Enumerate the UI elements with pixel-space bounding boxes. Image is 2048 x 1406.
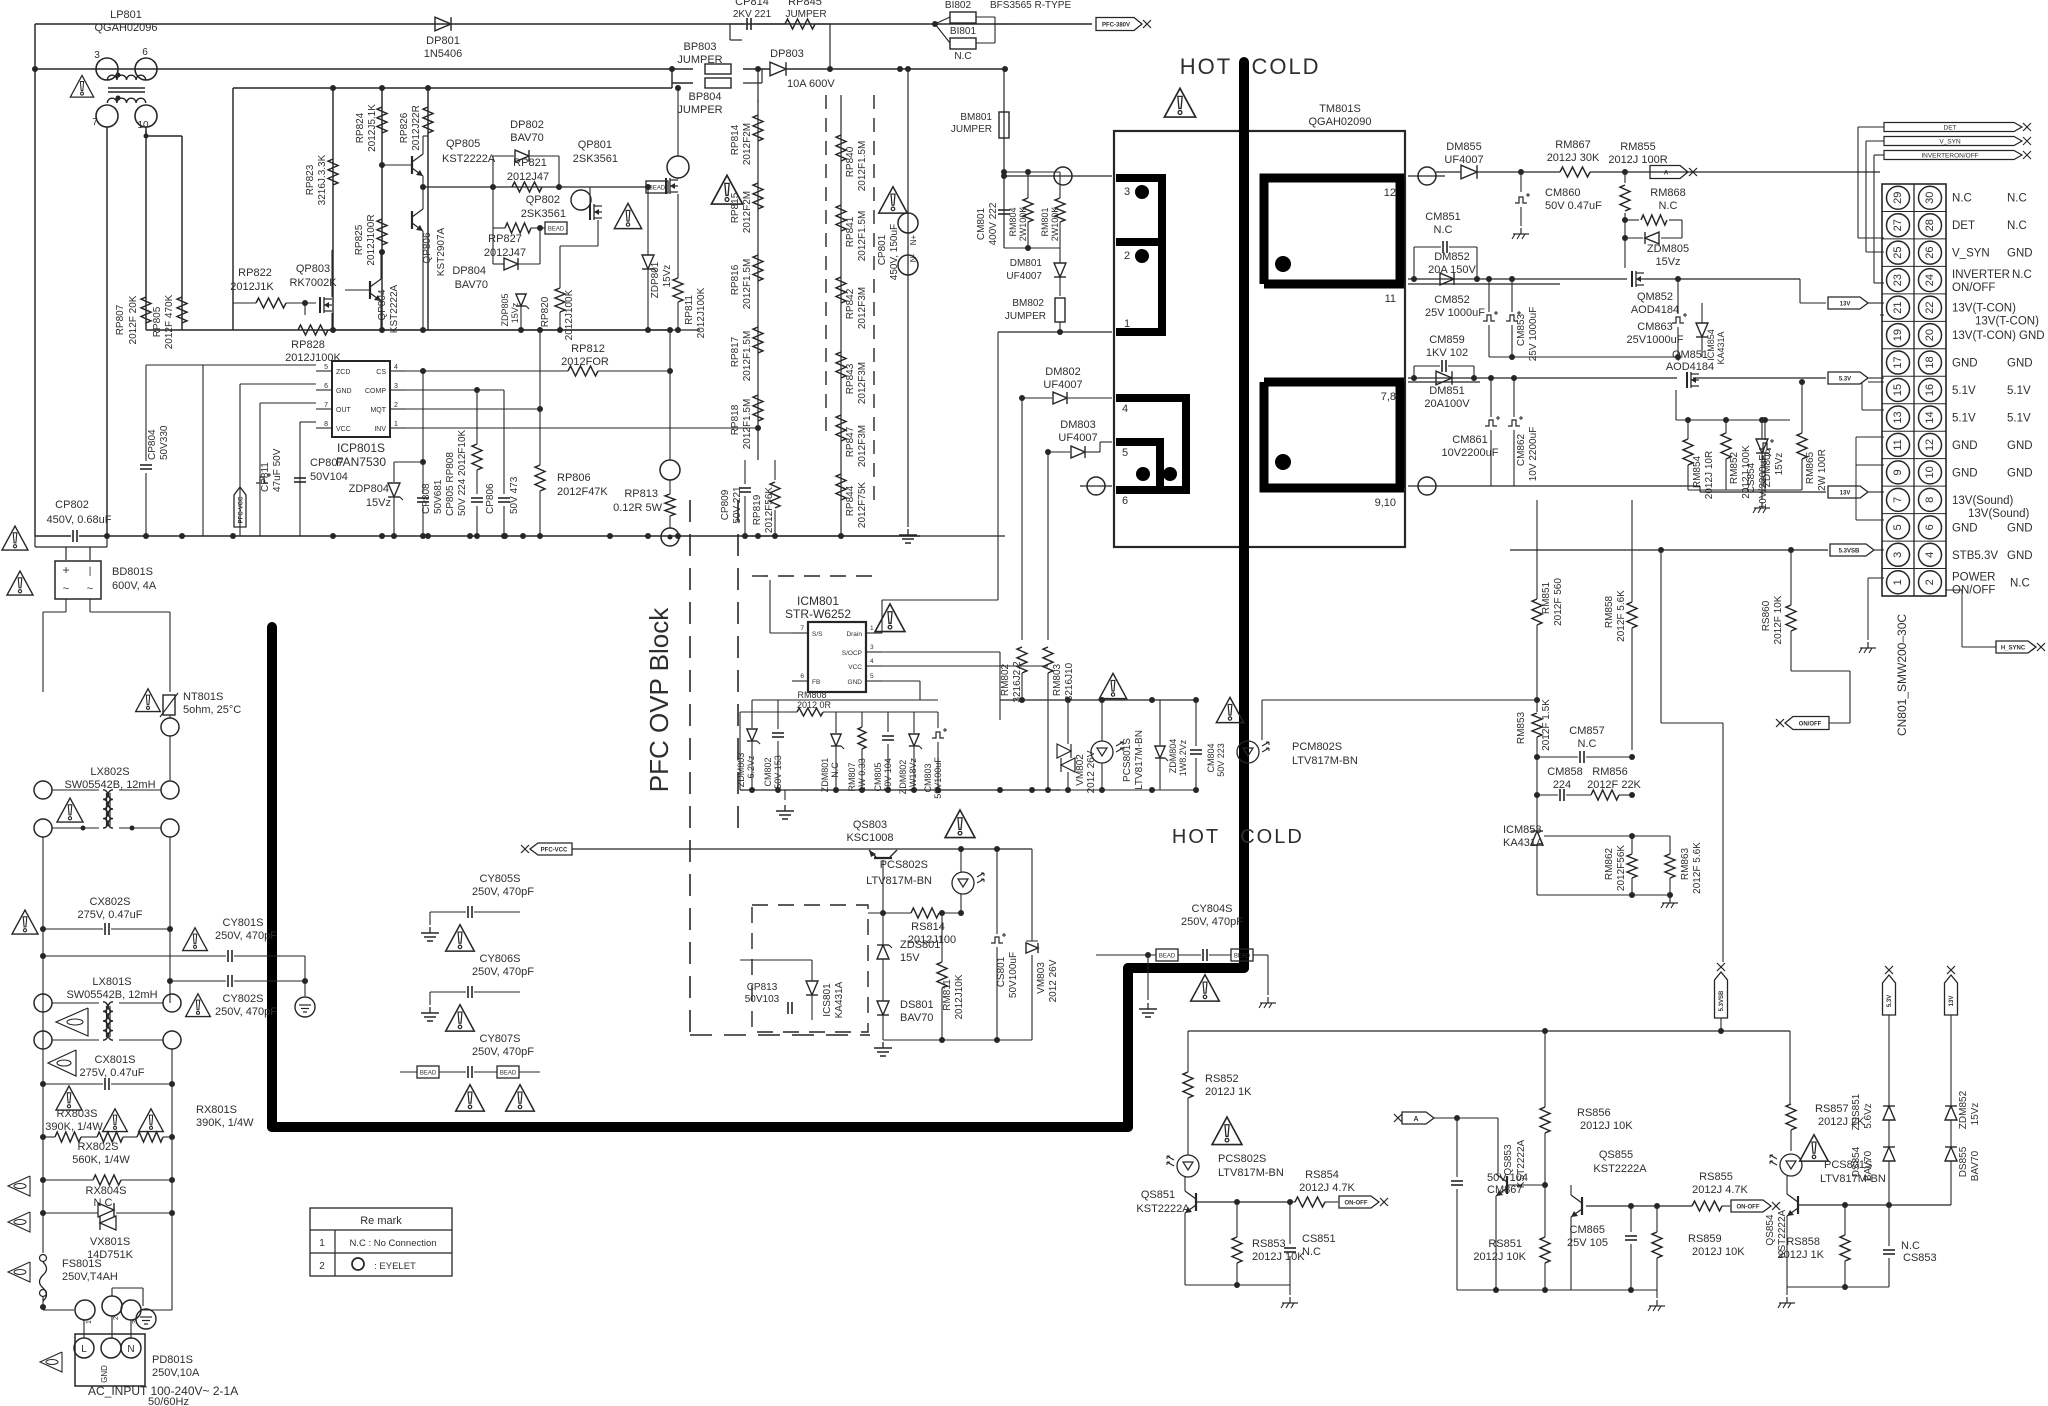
resistor RP820 vertical — [555, 288, 565, 312]
svg-text:ZDP805: ZDP805 — [500, 293, 510, 326]
svg-text:QP802: QP802 — [526, 194, 560, 206]
wire QS854 bottom rail — [1787, 1286, 1889, 1288]
warning triangle QP802 area — [614, 203, 641, 228]
svg-text:VX801S: VX801S — [90, 1236, 130, 1248]
wire pin3 eyelet — [1004, 175, 1112, 177]
svg-text:RS853: RS853 — [1252, 1238, 1286, 1250]
svg-text:ZDM802: ZDM802 — [898, 760, 908, 795]
svg-text:ZDP804: ZDP804 — [349, 483, 389, 495]
connector pin 29 — [1887, 186, 1910, 209]
warning triangle below HOT — [1164, 88, 1195, 117]
svg-text:KST2222A: KST2222A — [1136, 1203, 1190, 1215]
zener ZDM801 N.C — [831, 734, 841, 746]
svg-text:DET: DET — [1952, 220, 1975, 232]
svg-text:8: 8 — [324, 421, 328, 428]
wires PD801S — [83, 1320, 85, 1338]
svg-text:+: + — [62, 563, 69, 577]
zener ZDM804 1W8.2Vz — [1155, 746, 1165, 758]
svg-text:CM852: CM852 — [1434, 294, 1469, 306]
net arrow 5.3V up — [1883, 975, 1896, 1015]
resistor RP811 inline — [673, 278, 683, 302]
svg-text:ZDS851: ZDS851 — [1851, 1093, 1862, 1130]
svg-text:2012F1.5M: 2012F1.5M — [857, 141, 868, 192]
svg-text:KA431A: KA431A — [1716, 331, 1726, 364]
resistor ladder RP840-RP844 — [840, 95, 842, 536]
thick bottom horizontal bar — [272, 1122, 1128, 1132]
svg-text:BI801: BI801 — [950, 26, 977, 37]
svg-text:2012J5.1K: 2012J5.1K — [367, 104, 378, 152]
svg-text:DP803: DP803 — [770, 48, 804, 60]
connector pin 28 — [1919, 214, 1942, 237]
svg-text:RS856: RS856 — [1577, 1107, 1611, 1119]
svg-text:CM853: CM853 — [1516, 313, 1527, 346]
net arrow H_SYNC — [1996, 641, 2036, 653]
svg-text:4: 4 — [394, 364, 398, 371]
svg-text:GND: GND — [848, 679, 863, 686]
svg-text:RP843: RP843 — [845, 363, 856, 394]
resistor RP807 vertical — [141, 297, 151, 323]
connector pin 4 — [1919, 543, 1942, 566]
svg-text:CP806: CP806 — [485, 483, 496, 514]
connector pin 12 — [1919, 433, 1942, 456]
svg-text:CY802S: CY802S — [223, 993, 264, 1005]
svg-text:0.12R 5W: 0.12R 5W — [613, 502, 663, 514]
svg-text:GND: GND — [100, 1365, 109, 1383]
svg-text:QP806: QP806 — [422, 232, 433, 264]
svg-text:CY806S: CY806S — [480, 953, 521, 965]
svg-text:RP816: RP816 — [730, 264, 741, 295]
svg-text:SW05542B, 12mH: SW05542B, 12mH — [66, 989, 157, 1001]
svg-text:VCC: VCC — [848, 664, 862, 671]
svg-text:QGAH02096: QGAH02096 — [95, 22, 158, 34]
svg-text:15Vz: 15Vz — [510, 302, 520, 323]
jumper BM802 — [1055, 298, 1065, 322]
zener ZDM805 15Vz — [1645, 232, 1659, 244]
ground stub below connector — [1867, 620, 1869, 640]
svg-text:CS851: CS851 — [1302, 1233, 1336, 1245]
resistor RS854 2012J 4.7K — [1295, 1197, 1325, 1207]
svg-text:2012J 100R: 2012J 100R — [1608, 154, 1667, 166]
resistor RP816 vertical — [753, 255, 763, 281]
svg-text:RM854: RM854 — [1692, 455, 1703, 488]
svg-text:5: 5 — [324, 364, 328, 371]
electrolytic CM863 25V1000uF — [1672, 317, 1684, 323]
svg-text:2012F1.5M: 2012F1.5M — [742, 399, 753, 450]
svg-text:2012F 5.6K: 2012F 5.6K — [1692, 842, 1703, 894]
svg-text:BAV70: BAV70 — [1970, 1150, 1981, 1181]
connector pin 30 — [1919, 186, 1942, 209]
thick left vertical bar — [267, 627, 277, 1127]
svg-text:LX801S: LX801S — [92, 976, 131, 988]
svg-text:CP805 RP808: CP805 RP808 — [445, 452, 456, 516]
svg-text:QS851: QS851 — [1141, 1189, 1175, 1201]
svg-text:RM858: RM858 — [1604, 595, 1615, 628]
resistor RP843 vertical — [836, 352, 846, 378]
svg-text:N.C: N.C — [1952, 193, 1972, 205]
svg-text:13: 13 — [1892, 411, 1904, 423]
svg-text:KST2222A: KST2222A — [442, 153, 496, 165]
wire COMP row y390 — [406, 389, 504, 391]
svg-text:2012F1.5M: 2012F1.5M — [742, 259, 753, 310]
connector pin 1 — [1887, 571, 1910, 594]
svg-text:CM801: CM801 — [976, 207, 987, 240]
svg-text:10V2200uF: 10V2200uF — [1442, 447, 1499, 459]
svg-text:50V 223: 50V 223 — [1216, 743, 1226, 777]
resistor RS856 2012J 10K — [1540, 1107, 1550, 1133]
svg-text:50V103: 50V103 — [745, 994, 780, 1005]
warning QS803 wire — [945, 810, 975, 838]
resistor RP819 2012F56K — [770, 482, 780, 508]
svg-text:BM801: BM801 — [960, 112, 992, 123]
svg-text:2KV 221: 2KV 221 — [733, 9, 772, 20]
diode DS801 BAV70 — [877, 1001, 889, 1015]
svg-text:7,8: 7,8 — [1381, 391, 1396, 403]
svg-text:30: 30 — [1924, 192, 1936, 204]
svg-text:RS859: RS859 — [1688, 1233, 1722, 1245]
svg-text:2012F3M: 2012F3M — [857, 287, 868, 329]
svg-text:N.C: N.C — [1302, 1246, 1321, 1258]
capacitor CS851 NC — [1284, 1247, 1296, 1249]
svg-text:2012 0R: 2012 0R — [797, 700, 832, 710]
svg-text:GND: GND — [2007, 550, 2033, 562]
main horizontal bus — [79, 535, 920, 537]
svg-text:QP804: QP804 — [377, 289, 388, 321]
svg-text:JUMPER: JUMPER — [677, 104, 722, 116]
dashed vertical boundary A — [689, 500, 691, 1035]
svg-text:UF4007: UF4007 — [1043, 379, 1082, 391]
resistor RS857 2012J 2K — [1786, 1104, 1796, 1130]
svg-text:250V, 470pF: 250V, 470pF — [472, 1046, 534, 1058]
svg-text:COLD: COLD — [1240, 826, 1304, 848]
wire PFC-VCC bus — [572, 848, 1032, 850]
svg-text:2W100K: 2W100K — [1018, 207, 1028, 242]
svg-text:2012J22R: 2012J22R — [411, 105, 422, 151]
bead QP802 — [545, 222, 567, 234]
svg-text:ZDM803: ZDM803 — [736, 753, 746, 788]
svg-text:2W 100R: 2W 100R — [1817, 449, 1828, 491]
svg-text:2SK3561: 2SK3561 — [521, 208, 566, 220]
svg-text:MQT: MQT — [370, 407, 386, 414]
warning left 3 — [8, 1262, 30, 1282]
svg-text:1: 1 — [1124, 318, 1130, 330]
svg-text:LX802S: LX802S — [90, 766, 129, 778]
wire y187 row — [423, 186, 648, 188]
thick vertical to bottom bar — [1123, 968, 1133, 1127]
connector pin 16 — [1919, 379, 1942, 402]
svg-text:2012J10K: 2012J10K — [954, 974, 965, 1019]
electrolytic CP811 47uF 50V — [256, 477, 268, 483]
svg-text:STR-W6252: STR-W6252 — [785, 607, 851, 621]
svg-text:PFC-VCC: PFC-VCC — [541, 848, 568, 854]
wires BI801/BI802 — [935, 17, 950, 24]
svg-text:GND: GND — [336, 388, 352, 395]
svg-text:2012J47: 2012J47 — [507, 171, 549, 183]
wire ICM853 col to bottom — [1767, 700, 1769, 815]
svg-text:50V 0.47uF: 50V 0.47uF — [1545, 200, 1602, 212]
svg-text:23: 23 — [1892, 274, 1904, 286]
wire LX801S down — [42, 1049, 44, 1253]
aux winding pins 4-6 — [1116, 398, 1186, 490]
svg-text:27: 27 — [1892, 219, 1904, 231]
ground CP801 column — [907, 529, 909, 535]
svg-text:QS853: QS853 — [1503, 1144, 1514, 1176]
svg-text:RP828: RP828 — [291, 339, 325, 351]
electrolytic CS854 — [1759, 443, 1771, 449]
svg-text:JUMPER: JUMPER — [677, 54, 722, 66]
dashed segment above ICM801 — [752, 575, 872, 577]
net arrow 5.3V — [1828, 372, 1868, 384]
resistor RS859 2012J 10K — [1652, 1232, 1662, 1258]
svg-text:2012F 22K: 2012F 22K — [1587, 779, 1641, 791]
svg-text:RM801: RM801 — [1040, 207, 1050, 236]
svg-text:13V: 13V — [1840, 302, 1851, 308]
svg-text:RP817: RP817 — [730, 336, 741, 367]
svg-text:5.1V: 5.1V — [2007, 385, 2031, 397]
warning RS852 — [1212, 1117, 1242, 1145]
svg-text:3216J2.2: 3216J2.2 — [1012, 661, 1023, 703]
svg-text:BEAD: BEAD — [548, 227, 565, 233]
svg-text:RM862: RM862 — [1604, 847, 1615, 880]
svg-text:3: 3 — [94, 50, 100, 61]
wire RP822 to gate — [233, 302, 256, 304]
svg-text:CM802: CM802 — [763, 757, 773, 786]
svg-text:2012 26V: 2012 26V — [1048, 959, 1059, 1002]
net arrow PFC-VCC rotated — [234, 487, 246, 527]
svg-text:6.2Vz: 6.2Vz — [746, 755, 756, 779]
resistor RS852 2012J 1K — [1183, 1072, 1193, 1098]
svg-text:DM802: DM802 — [1045, 366, 1080, 378]
wire CY804S left ground — [1140, 954, 1156, 956]
svg-text:600V, 4A: 600V, 4A — [112, 580, 157, 592]
svg-text:2012J100K: 2012J100K — [696, 287, 707, 338]
svg-text:7: 7 — [92, 117, 98, 128]
transformer LP801 — [96, 58, 118, 80]
wires arrows to pins — [1858, 126, 1884, 128]
svg-text:PD801S: PD801S — [152, 1354, 193, 1366]
transistor QP805 KST2222A — [411, 156, 413, 174]
resistor RS858 2012J 1K — [1840, 1235, 1850, 1261]
mosfet QM852 AOD4184 — [1624, 262, 1626, 268]
resistor RM804 2W100K — [1023, 198, 1033, 222]
capacitor CP806 50V 473 — [498, 497, 510, 499]
svg-text:QP801: QP801 — [578, 139, 612, 151]
svg-text:50V100uF: 50V100uF — [1008, 952, 1019, 998]
svg-text:RP807: RP807 — [115, 304, 126, 335]
capacitor CP802 450V 0.68uF — [72, 530, 74, 542]
warning triangle LP801 — [70, 75, 93, 97]
resistor RM807 1W 0.33 — [858, 727, 866, 749]
svg-text:RX801S: RX801S — [196, 1104, 237, 1116]
warning triangle LX802S — [57, 798, 83, 822]
svg-text:BEAD: BEAD — [420, 1071, 437, 1077]
diode DM801 UF4007 — [1054, 263, 1066, 277]
svg-text:15Vz: 15Vz — [366, 497, 391, 509]
connector pin 10 — [1919, 461, 1942, 484]
svg-text:S/OCP: S/OCP — [842, 650, 862, 657]
electrolytic CM860 50V 0.47uF — [1520, 172, 1522, 192]
fuse FS801S — [40, 1262, 47, 1301]
svg-text:2012F 5.6K: 2012F 5.6K — [1616, 590, 1627, 642]
capacitor CM801 400V 222 — [998, 209, 1010, 211]
svg-text:RM811: RM811 — [942, 979, 953, 1011]
svg-text:2012J1K: 2012J1K — [230, 281, 274, 293]
svg-text:ZDP801: ZDP801 — [650, 261, 661, 298]
svg-text:400V 222: 400V 222 — [988, 202, 999, 245]
svg-text:N.C: N.C — [2007, 193, 2027, 205]
svg-text:CM858: CM858 — [1547, 766, 1582, 778]
svg-text:2012J 10K: 2012J 10K — [1473, 1251, 1526, 1263]
svg-text:2012F2M: 2012F2M — [742, 123, 753, 165]
warning CY807S pair — [456, 1085, 485, 1111]
zener ZDS801 15V — [877, 945, 889, 959]
svg-text:INVERTER: INVERTER — [1952, 269, 2010, 281]
svg-text:RP812: RP812 — [571, 343, 605, 355]
svg-text:N.C: N.C — [954, 51, 971, 62]
svg-text:50V681: 50V681 — [433, 479, 444, 514]
svg-text:RP814: RP814 — [730, 124, 741, 155]
svg-text:16: 16 — [1924, 384, 1936, 396]
svg-text:CY801S: CY801S — [223, 917, 264, 929]
svg-text:CS801: CS801 — [996, 956, 1007, 987]
wires RM801/RM804 bracket — [1004, 171, 1060, 173]
svg-text:CP802: CP802 — [55, 499, 89, 511]
warning PD801S — [40, 1352, 62, 1372]
eyelet NT801S — [161, 718, 179, 736]
svg-text:5.1V: 5.1V — [1952, 412, 1976, 424]
svg-text:RM804: RM804 — [1008, 207, 1018, 236]
svg-text:A: A — [1413, 1116, 1418, 1123]
svg-text:N.C: N.C — [1578, 738, 1597, 750]
opto PCS802S bottom — [1177, 1155, 1199, 1177]
wire pin1 power online — [1868, 577, 1884, 579]
svg-text:450V, 0.68uF: 450V, 0.68uF — [46, 514, 111, 526]
svg-text:DP801: DP801 — [426, 35, 460, 47]
svg-text:RM863: RM863 — [1680, 847, 1691, 880]
resistor RP814 vertical — [753, 115, 763, 141]
svg-text:QP803: QP803 — [296, 263, 330, 275]
svg-text:RP818: RP818 — [730, 404, 741, 435]
svg-text:2W100K: 2W100K — [1050, 207, 1060, 242]
connector pin 7 — [1887, 488, 1910, 511]
resistor ladder RP814-RP817 — [757, 100, 759, 460]
svg-text:RS855: RS855 — [1699, 1171, 1733, 1183]
svg-text:DM852: DM852 — [1434, 251, 1469, 263]
resistor RP826 vertical — [423, 107, 433, 133]
wire RS860 to ON/OFF — [1791, 670, 1850, 672]
svg-text:DM855: DM855 — [1446, 141, 1481, 153]
svg-text:CS854: CS854 — [1746, 462, 1757, 493]
svg-text:3: 3 — [1892, 552, 1904, 558]
svg-text:RM855: RM855 — [1620, 141, 1655, 153]
svg-text:POWER: POWER — [1952, 571, 1995, 583]
svg-text:RK7002K: RK7002K — [289, 277, 337, 289]
svg-text:50V330: 50V330 — [159, 425, 170, 460]
svg-text:VCC: VCC — [336, 426, 351, 433]
svg-text:2: 2 — [394, 402, 398, 409]
mosfet QP803 RK7002K — [319, 297, 321, 313]
svg-text:RP815: RP815 — [730, 192, 741, 223]
svg-text:450V, 150uF: 450V, 150uF — [889, 224, 900, 280]
svg-text:2012J 10K: 2012J 10K — [1580, 1120, 1633, 1132]
svg-text:25V 1000uF: 25V 1000uF — [1425, 307, 1485, 319]
svg-text:N.C: N.C — [1434, 224, 1453, 236]
svg-text:9: 9 — [1892, 469, 1904, 475]
svg-text:3216J10: 3216J10 — [1064, 662, 1075, 701]
svg-text:RS858: RS858 — [1786, 1236, 1820, 1248]
wire cluster bottom rail — [146, 329, 672, 331]
svg-text:INVERTERON/OFF: INVERTERON/OFF — [1921, 153, 1978, 160]
svg-text:2012F3M: 2012F3M — [857, 362, 868, 404]
svg-text:COLD: COLD — [1251, 54, 1320, 79]
svg-text:2: 2 — [113, 1316, 120, 1320]
resistor RP828 inline bottom rail — [298, 325, 328, 335]
svg-text:24: 24 — [1924, 274, 1936, 286]
warning triangle left CP802 — [2, 526, 28, 550]
svg-text:CM859: CM859 — [1429, 334, 1464, 346]
svg-text:20A100V: 20A100V — [1424, 398, 1470, 410]
svg-text:LTV817M-BN: LTV817M-BN — [1218, 1167, 1284, 1179]
net arrow PFC-VCC left — [530, 843, 572, 855]
connector pin 27 — [1887, 214, 1910, 237]
svg-text:N.C: N.C — [2010, 577, 2030, 589]
wire bottom rail extension — [328, 329, 700, 331]
svg-text:6: 6 — [1924, 524, 1936, 530]
bead QP801 gate — [646, 181, 668, 193]
wire KA431 ref row — [1544, 835, 1670, 837]
resistor RP821 horizontal — [512, 182, 542, 192]
wire ladder top — [757, 69, 759, 102]
svg-text:5: 5 — [1892, 524, 1904, 530]
svg-text:RP813: RP813 — [624, 488, 658, 500]
resistor RP806 2012F47K inline x540 — [535, 465, 545, 491]
svg-text:ZDS801: ZDS801 — [900, 939, 940, 951]
wire QS854 emitter — [1786, 1216, 1788, 1287]
svg-text:2012F56K: 2012F56K — [764, 487, 775, 533]
svg-text:RP847: RP847 — [845, 426, 856, 457]
resistor RS851 2012J 10K — [1540, 1237, 1550, 1263]
svg-text:5: 5 — [870, 673, 874, 680]
svg-text:CM805: CM805 — [873, 762, 883, 791]
resistor RP812 2012FOR inline — [568, 366, 598, 376]
resistor RP822 horizontal — [256, 298, 286, 308]
svg-text:KST2907A: KST2907A — [436, 227, 447, 276]
svg-text:GND: GND — [1952, 358, 1978, 370]
capacitor CM802 50V 153 — [772, 732, 784, 734]
thick bar HOT/COLD divider — [1239, 62, 1249, 968]
connector pin 5 — [1887, 516, 1910, 539]
svg-text:26: 26 — [1924, 247, 1936, 259]
svg-text:29: 29 — [1892, 192, 1904, 204]
svg-text:RM852: RM852 — [1729, 451, 1740, 484]
net arrow 13V up — [1945, 975, 1958, 1015]
varistor VX801S 14D751K — [98, 1203, 114, 1217]
svg-text:1W8.2Vz: 1W8.2Vz — [1178, 739, 1188, 776]
svg-text:BEAD: BEAD — [649, 186, 666, 192]
svg-text:13V(T-CON): 13V(T-CON) — [1975, 316, 2039, 328]
resistor RM854 2012J 10R — [1683, 439, 1693, 465]
svg-text:50V 473: 50V 473 — [509, 476, 520, 514]
shunt ICM854 KA431A — [1696, 323, 1708, 337]
svg-text:BAV70: BAV70 — [455, 279, 488, 291]
net arrow ON/OFF — [1785, 717, 1829, 730]
svg-text:13V(Sound): 13V(Sound) — [1968, 508, 2030, 520]
svg-text:13V(Sound): 13V(Sound) — [1952, 495, 2014, 507]
svg-text:250V,10A: 250V,10A — [152, 1367, 200, 1379]
svg-text:2012J100K: 2012J100K — [564, 289, 575, 340]
connector pin 25 — [1887, 241, 1910, 264]
wire choke down — [42, 837, 44, 1253]
transistor QS853 KST2222A — [1506, 1176, 1508, 1194]
